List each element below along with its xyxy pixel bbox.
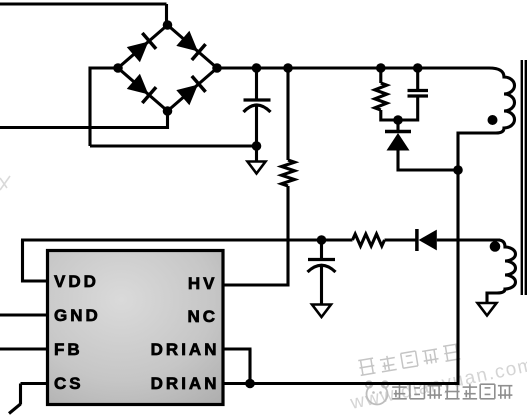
pin label GND	[54, 306, 101, 325]
capacitor C2 (VDD, polarized)	[308, 240, 336, 305]
svg-text:HV: HV	[188, 274, 218, 293]
wire DC minus rail	[90, 67, 257, 147]
diode D5 (aux rectifier)	[417, 229, 437, 251]
wire VDD pin loop	[21, 240, 353, 283]
op-amp U1 (controller IC body)	[48, 251, 224, 405]
transformer T1 core	[522, 60, 526, 295]
capacitor C1 (bulk, polarized)	[244, 68, 271, 146]
svg-text:GND: GND	[54, 306, 101, 325]
resistor R3 (VDD series)	[353, 234, 385, 246]
pin label HV	[188, 274, 218, 293]
node snubber bottom junction	[393, 115, 403, 125]
diode D3 (bridge bottom-left)	[127, 74, 156, 103]
node T1 primary phase dot	[488, 115, 498, 125]
capacitor C3 (snubber)	[408, 66, 429, 122]
wire clamp to drain	[398, 168, 458, 171]
transformer T1 aux winding	[487, 240, 516, 303]
svg-text:DRIAN: DRIAN	[151, 340, 220, 359]
pin label VDD	[54, 272, 99, 291]
svg-text:CS: CS	[54, 374, 84, 393]
node clamp-drain junction	[453, 165, 463, 175]
node bridge right vertex	[212, 63, 222, 73]
node DRIAN tie junction	[245, 379, 255, 389]
transformer T1 primary winding	[458, 68, 515, 133]
watermark fragment at left edge	[0, 176, 10, 190]
pin label FB	[54, 340, 83, 359]
watermark diagonal url text	[348, 354, 527, 414]
wire drain vertical	[456, 132, 459, 384]
pin label CS	[54, 374, 84, 393]
pin label NC	[187, 307, 218, 326]
watermark logo (cat face)	[366, 381, 388, 404]
resistor R2 (snubber)	[375, 66, 387, 122]
node T1 aux phase dot	[490, 241, 501, 252]
node rail-R2 junction	[376, 63, 386, 73]
pin label DRIAN lower	[151, 374, 220, 393]
wire FB pin	[0, 347, 48, 350]
node bridge left vertex	[113, 63, 123, 73]
ground primary (below C1)	[248, 146, 266, 174]
watermark 世纪电源网 (stylized)	[358, 344, 460, 375]
wire D5 to aux winding	[437, 238, 500, 241]
node C1 / primary ground junction	[252, 141, 262, 151]
wire DRIAN net to drain	[223, 382, 460, 385]
wire snubber bottom join	[381, 118, 418, 121]
svg-text:VDD: VDD	[54, 272, 99, 291]
node rail-C3 junction	[413, 63, 423, 73]
bridge rectifier BR1 frame	[118, 25, 217, 111]
diode D4 (bridge bottom-right)	[176, 76, 205, 105]
node bridge bottom vertex	[163, 106, 173, 116]
ground VDD cap	[312, 305, 331, 318]
wire DC plus rail	[217, 66, 489, 69]
svg-text:FB: FB	[54, 340, 83, 359]
svg-text:DRIAN: DRIAN	[151, 374, 220, 393]
svg-text:NC: NC	[187, 307, 218, 326]
node rail-R1 junction	[283, 63, 293, 73]
node VDD cap junction	[317, 235, 327, 245]
wire CS pin	[9, 384, 48, 414]
wire R3 to D5	[385, 238, 417, 241]
wire HV branch lower	[221, 186, 288, 287]
pin label DRIAN upper	[151, 340, 220, 359]
resistor R1 (startup, to HV)	[282, 160, 295, 186]
wire DRIAN upper pin	[223, 349, 252, 384]
watermark 电源研发精英圈 (stylized)	[392, 384, 512, 399]
node rail-C1 junction	[252, 63, 262, 73]
diode D1 (bridge top-left)	[127, 33, 156, 62]
diode D2 (bridge top-right)	[176, 31, 205, 60]
wire AC line N (lower-left)	[0, 111, 169, 129]
wire HV branch upper	[286, 66, 289, 160]
wire AC line L (top)	[0, 4, 167, 27]
diode D6 (clamp)	[385, 120, 411, 172]
wire GND pin	[0, 313, 48, 316]
node bridge top vertex	[163, 20, 173, 30]
ground aux winding	[478, 303, 497, 316]
